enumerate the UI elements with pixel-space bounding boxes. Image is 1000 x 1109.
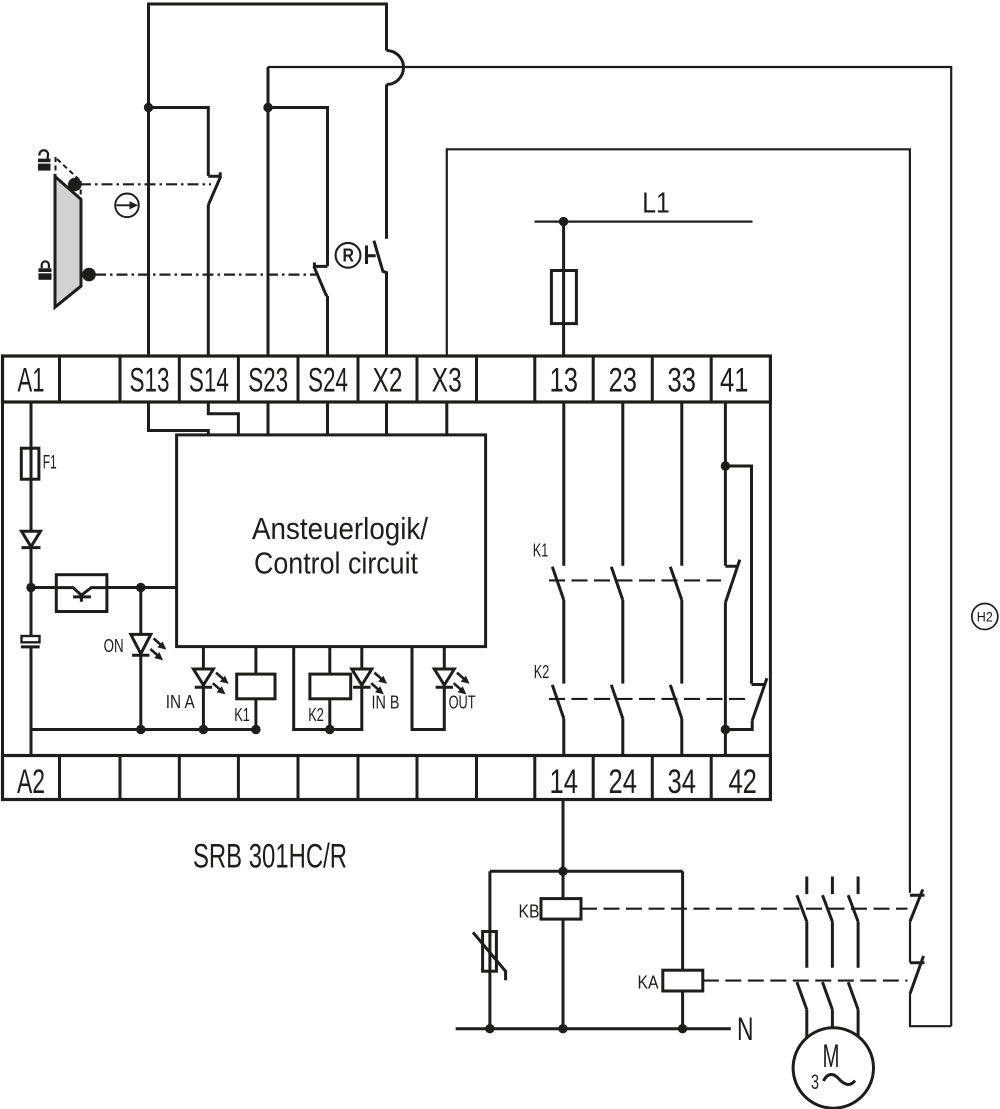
node: door actuation point lower: [82, 268, 96, 282]
svg-text:S23: S23: [248, 362, 288, 400]
wire: K2 coil branch: [328, 647, 331, 730]
device body outline: [3, 402, 771, 756]
contact K1 NC pole 41-42: [725, 560, 739, 603]
wire: contact column 23: [621, 402, 624, 566]
wire: contact column 13: [562, 402, 565, 566]
icon: open padlock: [38, 159, 51, 163]
contact: safety gate NC contact S23-S24 (mirrored): [314, 262, 328, 296]
svg-text:F1: F1: [43, 452, 57, 474]
wire: X3 into logic: [445, 402, 448, 435]
svg-text:IN A: IN A: [166, 692, 195, 712]
varistor branch wire: [488, 871, 491, 1028]
button: reset pushbutton X2 (NO): [385, 85, 388, 239]
wire: terminal 14 down: [562, 800, 565, 899]
linkage: KB dashed: [581, 908, 908, 910]
contact K2 NO pole 33-34: [670, 685, 682, 719]
svg-text:K1: K1: [234, 705, 250, 725]
suppressor (transil) box: [56, 575, 107, 612]
svg-text:23: 23: [609, 362, 638, 400]
wire: A1 rail: [30, 402, 33, 588]
reset label circle R: [336, 243, 361, 268]
wire: node to suppressor box: [31, 586, 56, 589]
node: ON to bus: [136, 725, 145, 734]
node: KB to N: [558, 1024, 567, 1033]
node: KA to N: [678, 1024, 687, 1033]
linkage: K1 contacts dashed: [549, 579, 721, 581]
actuation arrow circle: [115, 194, 139, 218]
node: K2 to loop: [325, 725, 334, 734]
wire: contact column 33: [680, 402, 683, 566]
wire: 41 NC series branch: [725, 466, 751, 684]
wire: staircase S13 into logic: [149, 402, 209, 435]
svg-text:KA: KA: [638, 973, 659, 993]
svg-text:33: 33: [668, 362, 697, 400]
wire: OUT U loop: [412, 647, 444, 730]
wire: S24 into logic: [326, 402, 329, 435]
svg-text:S24: S24: [308, 362, 348, 400]
wire: top rail to H2 lamp branch: [268, 67, 951, 1026]
relay coil K1: [237, 674, 275, 699]
svg-text:K2: K2: [534, 662, 550, 682]
svg-text:H2: H2: [977, 609, 993, 625]
svg-text:S14: S14: [189, 362, 229, 400]
varistor RV: [483, 932, 497, 972]
wire: L1 to fuse: [562, 222, 565, 356]
svg-text:IN B: IN B: [372, 693, 400, 713]
motor M 3~: [793, 1028, 873, 1108]
safety door panel: [55, 177, 81, 308]
node: ON branch junction: [136, 583, 145, 592]
wire: IN A branch: [202, 647, 205, 730]
icon: closed padlock: [39, 268, 52, 272]
contactor coil KA: [663, 970, 703, 991]
supply line L1: [535, 221, 753, 223]
contact K2 NC pole 41-42: [752, 678, 767, 720]
node: S23 branch junction: [263, 103, 272, 112]
wire: contact to terminal S24: [326, 296, 329, 356]
motor supply phase stubs: [807, 877, 858, 895]
node: S13 branch junction: [144, 103, 153, 112]
door open position dashed outline: [55, 157, 57, 177]
contact K1 NO pole 23-24: [611, 567, 623, 600]
contactor KA main contacts: [797, 982, 858, 1010]
contact K1 NO pole 13-14: [552, 567, 564, 600]
wire: KA branch: [681, 871, 684, 970]
wire: ON branch: [139, 588, 142, 730]
wires to motor: [807, 1010, 858, 1046]
svg-text:3: 3: [811, 1071, 819, 1094]
contact KB mirror NC on H2 rail: [910, 889, 925, 921]
wire: K2 return U loop: [294, 647, 362, 730]
terminal strip row 2: [3, 756, 771, 800]
contact K2 NO pole 13-14: [552, 685, 564, 719]
LED IN B: [352, 669, 387, 694]
wire: internal 0V bus: [31, 728, 260, 731]
linkage: dashed actuator line lower: [95, 274, 316, 276]
svg-text:KB: KB: [519, 902, 540, 922]
svg-text:A1: A1: [18, 362, 45, 400]
linkage: K2 contacts dashed: [549, 698, 750, 700]
terminal strip row 1: [3, 356, 771, 402]
relay coil K2: [310, 674, 351, 699]
svg-text:OUT: OUT: [449, 693, 476, 713]
svg-text:A2: A2: [17, 763, 45, 801]
wire hop: X2 wire over X3 rail: [387, 51, 404, 85]
node: 14 branch: [558, 867, 567, 876]
contactor coil KB: [541, 899, 581, 920]
node: L1 tap: [559, 217, 568, 226]
node: 42 column junction: [721, 725, 730, 734]
contact K2 NO pole 23-24: [611, 685, 623, 719]
svg-text:X2: X2: [373, 362, 403, 400]
LED IN A: [193, 669, 228, 694]
wire: capacitor to terminal A2: [30, 647, 33, 756]
wire: contact to terminal S14: [207, 205, 210, 356]
wire: branch to gate contact 1: [149, 108, 209, 176]
svg-text:X3: X3: [432, 362, 462, 400]
node: door actuation point upper: [68, 178, 82, 192]
node: IN A to bus: [199, 725, 208, 734]
wire: top link S13 to X2: [149, 4, 387, 108]
wire: KB to N: [562, 919, 565, 1029]
svg-text:Ansteuerlogik/: Ansteuerlogik/: [252, 511, 428, 546]
wire: X2 into logic: [385, 402, 388, 435]
LED OUT: [434, 669, 469, 694]
svg-text:S13: S13: [130, 362, 170, 400]
LED ON: [131, 634, 167, 660]
svg-text:13: 13: [550, 362, 579, 400]
svg-text:14: 14: [550, 763, 579, 801]
wire: X3 feedback rail: [447, 149, 910, 892]
node: A1 rail junction: [26, 583, 35, 592]
wire: S23 into logic: [267, 402, 270, 435]
wire: contact column 41: [724, 402, 727, 566]
wire: suppressor to control box: [107, 586, 177, 589]
fuse: line fuse on 13: [551, 271, 576, 324]
neutral line N: [456, 1027, 731, 1030]
diode D1: [22, 531, 41, 547]
linkage: dashed actuator line upper: [80, 183, 211, 185]
wire: K1 coil branch: [254, 647, 257, 730]
svg-text:L1: L1: [642, 188, 670, 220]
contact KA mirror NC on H2 rail: [910, 956, 925, 994]
node: K1 to bus: [251, 725, 260, 734]
svg-text:34: 34: [668, 763, 697, 801]
wire: S23 column: [267, 67, 270, 356]
lamp label H2: [972, 604, 998, 630]
control logic box: [177, 435, 486, 647]
contactor KB main contacts: [797, 895, 858, 921]
svg-text:N: N: [737, 1011, 754, 1047]
svg-text:SRB 301HC/R: SRB 301HC/R: [193, 837, 347, 875]
wire: KA to N: [681, 991, 684, 1029]
linkage: KA dashed: [703, 980, 908, 982]
capacitor C1: [30, 588, 33, 637]
node: varistor to N: [485, 1024, 494, 1033]
svg-text:24: 24: [609, 763, 638, 801]
fuse F1: [21, 448, 39, 479]
wire: branch to gate contact 2: [268, 108, 328, 267]
wire: S13 column: [147, 4, 150, 356]
svg-text:R: R: [343, 246, 355, 266]
svg-text:K2: K2: [308, 705, 324, 725]
svg-text:42: 42: [728, 763, 757, 801]
svg-text:Control circuit: Control circuit: [254, 546, 418, 581]
contact K1 NO pole 33-34: [670, 567, 682, 600]
node: 41 branch top: [721, 461, 730, 470]
svg-text:M: M: [823, 1038, 840, 1074]
wires between contact groups: [807, 922, 858, 968]
svg-text:K1: K1: [533, 541, 549, 561]
wire: staircase S14 into logic: [208, 402, 238, 435]
svg-text:41: 41: [720, 362, 749, 400]
contact: safety gate NC contact S13-S14: [208, 172, 220, 205]
svg-text:ON: ON: [104, 636, 124, 656]
wire: bottom branch header: [490, 870, 683, 873]
